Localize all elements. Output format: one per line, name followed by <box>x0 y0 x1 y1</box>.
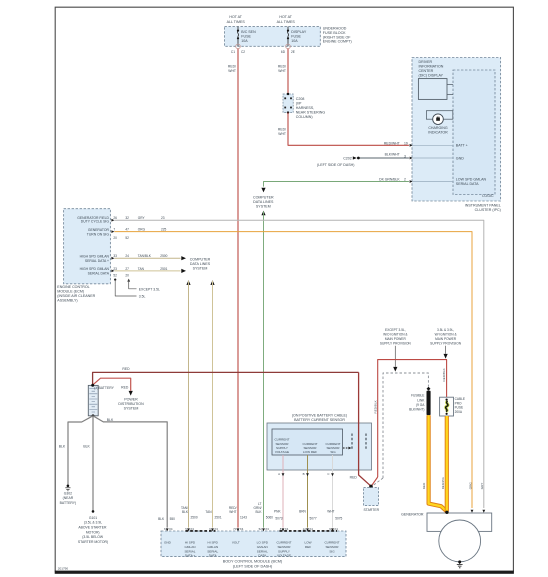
IPC pin GND <box>410 156 465 160</box>
svg-text:2501: 2501 <box>160 267 167 271</box>
svg-text:WHT: WHT <box>229 510 236 514</box>
svg-text:(9 GA: (9 GA <box>416 403 425 407</box>
svg-text:(NEAR: (NEAR <box>63 496 74 500</box>
svg-text:47: 47 <box>125 228 129 232</box>
svg-text:HARNESS,: HARNESS, <box>296 106 314 110</box>
svg-text:HIGH SPD GMLAN: HIGH SPD GMLAN <box>80 267 110 271</box>
svg-text:COLUMN): COLUMN) <box>296 115 313 119</box>
svg-text:SUPPLY PROVISION: SUPPLY PROVISION <box>430 341 462 345</box>
wire TAN/BLK 2500 <box>114 254 186 260</box>
svg-text:FUSIBLE: FUSIBLE <box>411 394 424 398</box>
BCM pin LO SPD GMLAN SERIAL DATA <box>254 502 274 558</box>
svg-text:(I/P: (I/P <box>296 101 302 105</box>
svg-text:2500: 2500 <box>191 515 198 519</box>
svg-text:RED: RED <box>121 386 129 390</box>
svg-text:PNK: PNK <box>274 509 281 513</box>
svg-text:5077: 5077 <box>310 516 317 520</box>
svg-text:NEAR STEERING: NEAR STEERING <box>296 110 326 114</box>
svg-text:X3: X3 <box>214 527 218 531</box>
svg-text:STARTER: STARTER <box>364 508 380 512</box>
svg-text:ALL TIMES: ALL TIMES <box>277 20 296 24</box>
svg-text:52: 52 <box>125 236 129 240</box>
svg-text:RED: RED <box>122 367 130 371</box>
wire TAN 2501 <box>114 267 186 273</box>
engine control module (ECM) box <box>57 209 110 303</box>
node computer data lines system (ECM side) <box>190 258 211 271</box>
svg-text:12: 12 <box>303 527 307 531</box>
svg-text:CHARGING: CHARGING <box>428 126 448 130</box>
svg-text:2500: 2500 <box>160 254 167 258</box>
svg-text:2: 2 <box>404 178 406 182</box>
svg-text:(INSIDE AIR CLEANER: (INSIDE AIR CLEANER <box>57 294 95 298</box>
svg-text:RED/: RED/ <box>278 64 286 68</box>
svg-text:COMPUTER: COMPUTER <box>253 196 274 200</box>
svg-text:GENERATOR: GENERATOR <box>88 228 110 232</box>
svg-text:W/ IGNITION &: W/ IGNITION & <box>435 332 458 336</box>
fuse B/C SEN 10A <box>231 27 256 54</box>
BCM pin LOW REF <box>303 527 314 549</box>
svg-text:ENGINE CONTROL: ENGINE CONTROL <box>57 285 89 289</box>
BCM pin GND <box>164 527 173 545</box>
svg-text:UNDERHOOD: UNDERHOOD <box>323 27 347 31</box>
svg-text:REF: REF <box>305 545 311 549</box>
svg-text:BATTERY): BATTERY) <box>60 501 76 505</box>
svg-text:(3.5L BELOW: (3.5L BELOW <box>82 535 104 539</box>
svg-text:ASSEMBLY): ASSEMBLY) <box>57 299 77 303</box>
svg-text:WHT: WHT <box>228 69 236 73</box>
generator case ground <box>457 560 463 567</box>
svg-text:2E: 2E <box>291 50 295 54</box>
wire ORG 225 to generator F <box>114 228 472 508</box>
cable RED generator to cable pro fuse (yellow) <box>441 416 447 512</box>
body control module (BCM) box <box>161 531 346 569</box>
svg-text:RED: RED <box>422 482 426 489</box>
svg-text:MODULE (ECM): MODULE (ECM) <box>57 290 84 294</box>
svg-text:52: 52 <box>113 273 117 277</box>
svg-text:X4: X4 <box>285 527 289 531</box>
battery current sensor box <box>267 413 372 470</box>
svg-text:DATA +: DATA + <box>185 554 195 558</box>
svg-text:19: 19 <box>404 141 408 145</box>
svg-text:LOW REF: LOW REF <box>303 450 317 454</box>
wire RED/WHT C208 to IPC BATT+ <box>278 113 409 146</box>
ground G302 <box>60 485 76 505</box>
svg-text:200A: 200A <box>455 410 463 414</box>
svg-text:BLK: BLK <box>107 418 114 422</box>
fusible link 9 GA BLK/WHT <box>409 387 430 415</box>
svg-text:GRY: GRY <box>480 483 484 490</box>
cable pro fuse 200A <box>440 397 465 416</box>
svg-text:23: 23 <box>113 267 117 271</box>
svg-text:(DIC) DISPLAY: (DIC) DISPLAY <box>419 74 444 78</box>
svg-text:33: 33 <box>113 254 117 258</box>
svg-text:ABOVE STARTER: ABOVE STARTER <box>78 526 107 530</box>
svg-text:HOT AT: HOT AT <box>279 15 292 19</box>
wire LT GRN/BLK 5060 to BCM <box>261 211 265 528</box>
svg-text:VOLT: VOLT <box>232 541 240 545</box>
svg-text:X3: X3 <box>265 527 269 531</box>
svg-text:(ON POSITIVE BATTERY CABLE): (ON POSITIVE BATTERY CABLE) <box>292 413 347 417</box>
svg-text:70: 70 <box>233 527 237 531</box>
svg-text:20: 20 <box>113 236 117 240</box>
BCM pin CURRENT SENSOR SUPPLY VOLTAGE <box>276 527 291 557</box>
svg-text:5060: 5060 <box>266 515 273 519</box>
svg-text:CLUSTER (IPC): CLUSTER (IPC) <box>475 208 501 212</box>
svg-text:LOGIC: LOGIC <box>482 194 494 198</box>
svg-text:HIGH SPD GMLAN: HIGH SPD GMLAN <box>80 254 110 258</box>
svg-text:26: 26 <box>113 216 117 220</box>
svg-text:BLK: BLK <box>182 510 189 514</box>
svg-text:6D: 6D <box>281 50 286 54</box>
svg-text:LOW SPD GMLAN: LOW SPD GMLAN <box>456 177 487 181</box>
starter junction node <box>369 485 373 489</box>
battery <box>88 384 114 417</box>
svg-text:INDICATOR: INDICATOR <box>428 131 448 135</box>
connector C202 <box>317 156 360 167</box>
svg-text:RED/: RED/ <box>228 64 236 68</box>
svg-text:SERIAL DATA: SERIAL DATA <box>88 271 110 275</box>
twisted pair marker hi-spd gmlan <box>186 530 216 532</box>
svg-text:3: 3 <box>404 154 406 158</box>
wire PNK 5073 <box>274 455 284 528</box>
svg-text:BATT +: BATT + <box>456 144 468 148</box>
svg-text:EXCEPT 3.5L: EXCEPT 3.5L <box>139 287 160 291</box>
svg-text:STARTER MOTOR): STARTER MOTOR) <box>78 540 108 544</box>
svg-text:X4: X4 <box>309 527 313 531</box>
svg-text:POWER: POWER <box>124 398 138 402</box>
svg-text:TAN/BLK: TAN/BLK <box>138 254 152 258</box>
svg-text:CENTER: CENTER <box>419 69 434 73</box>
svg-text:DATA LINES: DATA LINES <box>190 262 211 266</box>
underhood fuse block (box) <box>225 15 352 47</box>
label 3.5L & 3.9L W/ IGNITION & MAIN POWER SUPPLY PROVISION <box>430 328 462 359</box>
svg-text:RED/: RED/ <box>278 127 286 131</box>
connector C208 <box>283 93 325 119</box>
svg-text:MAIN POWER: MAIN POWER <box>385 337 407 341</box>
svg-text:DISTRIBUTION: DISTRIBUTION <box>118 402 144 406</box>
svg-text:WHT: WHT <box>278 132 286 136</box>
svg-text:ORG: ORG <box>468 482 472 490</box>
node computer data lines system (upper) <box>253 196 274 209</box>
svg-text:COMPUTER: COMPUTER <box>190 258 211 262</box>
svg-text:GENERATOR: GENERATOR <box>401 513 424 517</box>
svg-text:C1: C1 <box>231 50 235 54</box>
svg-text:RED: RED <box>350 476 358 480</box>
instrument panel cluster (IPC) box <box>412 58 501 213</box>
charging indicator <box>426 111 452 135</box>
svg-text:DUTY CYCLE SIG: DUTY CYCLE SIG <box>81 220 110 224</box>
svg-text:BLK: BLK <box>158 517 165 521</box>
BCM pin HI SPD GMLAN SERIAL DATA <box>205 510 221 558</box>
svg-text:B: B <box>303 472 305 476</box>
svg-text:5075: 5075 <box>335 516 342 520</box>
svg-text:ENGINE COMPT): ENGINE COMPT) <box>323 40 352 44</box>
svg-text:GRY: GRY <box>138 216 146 220</box>
svg-text:SYSTEM: SYSTEM <box>256 205 271 209</box>
svg-text:(+)BATTERY: (+)BATTERY <box>94 386 114 390</box>
svg-text:3.5L: 3.5L <box>139 295 146 299</box>
svg-text:SIG: SIG <box>329 549 335 553</box>
svg-text:X4: X4 <box>169 527 173 531</box>
svg-text:(LEFT SIDE OF DASH): (LEFT SIDE OF DASH) <box>233 565 273 569</box>
ground G101 <box>78 510 108 544</box>
svg-text:C: C <box>327 472 329 476</box>
svg-text:ALL TIMES: ALL TIMES <box>227 20 246 24</box>
svg-text:FUSE BLOCK: FUSE BLOCK <box>323 31 346 35</box>
wire RED/WHT fuse2 to C208 <box>278 49 288 93</box>
wire BLK/WHT IPC GND to C202 <box>360 153 409 159</box>
svg-text:SERIAL DATA +: SERIAL DATA + <box>85 259 109 263</box>
svg-text:W/O IGNITION &: W/O IGNITION & <box>383 332 408 336</box>
wire TAN/BLK 2500 BCM riser <box>186 280 190 527</box>
ECM pin HIGH SPD GMLAN SERIAL DATA + 33/24 <box>80 254 130 263</box>
svg-text:DRIVER: DRIVER <box>419 60 433 64</box>
wire RED battery positive cable <box>93 367 359 385</box>
svg-text:SERIAL DATA: SERIAL DATA <box>456 182 479 186</box>
svg-text:BRN: BRN <box>299 509 306 513</box>
cable RED generator to fusible link (yellow) <box>422 415 447 511</box>
svg-text:RED/BLK: RED/BLK <box>374 399 378 413</box>
svg-text:GND: GND <box>456 156 464 160</box>
svg-text:RED/BLK: RED/BLK <box>442 367 446 381</box>
svg-text:INFORMATION: INFORMATION <box>419 65 444 69</box>
generator <box>401 510 492 562</box>
svg-text:VOLTAGE: VOLTAGE <box>275 450 289 454</box>
svg-text:BODY CONTROL MODULE (BCM): BODY CONTROL MODULE (BCM) <box>223 560 283 564</box>
svg-text:20: 20 <box>125 273 129 277</box>
svg-text:DISPLAY: DISPLAY <box>291 30 307 34</box>
svg-text:GND: GND <box>164 541 172 545</box>
svg-text:10A: 10A <box>291 39 298 43</box>
label EXCEPT 3.5L W/O IGNITION & MAIN POWER SUPPLY PROVISION <box>380 328 412 372</box>
svg-text:SYSTEM: SYSTEM <box>193 267 208 271</box>
svg-text:2501: 2501 <box>215 515 222 519</box>
svg-text:EXCEPT 3.5L,: EXCEPT 3.5L, <box>385 328 406 332</box>
svg-text:32: 32 <box>125 216 129 220</box>
svg-text:WHT: WHT <box>327 509 334 513</box>
svg-text:(RIGHT SIDE OF: (RIGHT SIDE OF <box>323 35 351 39</box>
wire RED battery cable through sensor to starter junction <box>350 372 371 486</box>
IPC pin BATT+ <box>410 144 468 148</box>
svg-text:(3.5L & 3.9L: (3.5L & 3.9L <box>84 521 102 525</box>
svg-text:10A: 10A <box>241 39 248 43</box>
ECM pin variant note: 3.5L / EXCEPT 3.5L <box>114 279 160 299</box>
svg-text:201790: 201790 <box>58 566 69 570</box>
svg-text:MAIN POWER: MAIN POWER <box>435 337 457 341</box>
wire BLK battery to G302 <box>59 416 93 485</box>
BCM pin CURRENT SENSOR SIG <box>324 527 339 553</box>
svg-text:B/C SEN: B/C SEN <box>241 30 256 34</box>
svg-text:BLK/WHT: BLK/WHT <box>385 153 400 157</box>
svg-text:BATTERY CURRENT SENSOR: BATTERY CURRENT SENSOR <box>294 418 345 422</box>
wire BLK battery to BCM GND <box>93 416 175 528</box>
svg-text:X4: X4 <box>334 527 338 531</box>
wire RED/WHT fuse1 to BCM VOLT <box>228 49 238 528</box>
svg-text:SIG: SIG <box>330 450 336 454</box>
wire RED to power distribution system <box>93 378 144 410</box>
svg-text:23: 23 <box>161 216 165 220</box>
svg-text:FUSE: FUSE <box>241 35 251 39</box>
svg-text:RED/25A: RED/25A <box>441 477 445 489</box>
svg-text:3.5L & 3.9L,: 3.5L & 3.9L, <box>437 328 454 332</box>
ECM pin GENERATOR TURN ON SIG 7/47 <box>87 228 129 240</box>
svg-text:X4: X4 <box>240 527 244 531</box>
svg-text:BLK/WHT): BLK/WHT) <box>409 408 424 412</box>
BCM pin VOLT <box>229 506 247 545</box>
svg-text:(LEFT SIDE OF DASH): (LEFT SIDE OF DASH) <box>317 163 354 167</box>
svg-text:SUPPLY PROVISION: SUPPLY PROVISION <box>380 341 412 345</box>
svg-text:C202: C202 <box>343 156 352 160</box>
svg-text:X3: X3 <box>190 527 194 531</box>
svg-text:BLK: BLK <box>83 444 90 448</box>
svg-text:WHT: WHT <box>278 69 286 73</box>
svg-text:FUSE: FUSE <box>291 35 301 39</box>
svg-text:225: 225 <box>161 228 167 232</box>
ECM pin GENERATOR FIELD DUTY CYCLE SIG 26/32 <box>77 216 129 224</box>
svg-text:DATA LINES: DATA LINES <box>253 200 274 204</box>
svg-text:HOT AT: HOT AT <box>229 15 242 19</box>
starter box <box>364 488 380 512</box>
svg-text:24: 24 <box>125 254 129 258</box>
ECM pin HIGH SPD GMLAN SERIAL DATA 23/27 <box>80 267 130 278</box>
wire GRY 23 to generator L <box>114 216 484 508</box>
BCM pin HI SPD GMLAN SERIAL DATA + <box>181 506 198 558</box>
svg-text:TURN ON SIG: TURN ON SIG <box>87 233 110 237</box>
svg-text:DK GRN/BLK: DK GRN/BLK <box>379 178 400 182</box>
svg-text:BLK: BLK <box>255 510 262 514</box>
twisted pair marker current sensor wires <box>280 530 338 532</box>
fuse DISPLAY 10A <box>281 27 307 54</box>
svg-text:RED/WHT: RED/WHT <box>384 141 400 145</box>
svg-text:C2: C2 <box>241 50 245 54</box>
svg-text:550: 550 <box>170 517 176 521</box>
wire DK GRN/BLK IPC serial data <box>261 178 409 193</box>
svg-text:1143: 1143 <box>240 515 247 519</box>
svg-text:7: 7 <box>113 228 115 232</box>
svg-text:DATA: DATA <box>258 554 267 558</box>
svg-text:27: 27 <box>125 267 129 271</box>
svg-text:LINK: LINK <box>417 398 425 402</box>
svg-text:DATA: DATA <box>209 554 218 558</box>
svg-text:INSTRUMENT PANEL: INSTRUMENT PANEL <box>465 204 501 208</box>
svg-text:SYSTEM: SYSTEM <box>124 407 139 411</box>
wire dashed EXCEPT 3.5L path to fusible link <box>373 373 429 486</box>
svg-text:5073: 5073 <box>275 516 282 520</box>
svg-text:G101: G101 <box>89 516 97 520</box>
svg-text:TAN: TAN <box>138 267 145 271</box>
svg-text:52: 52 <box>259 527 263 531</box>
wire BRN 5077 <box>299 455 317 528</box>
IPC pin LOW SPD GMLAN SERIAL DATA <box>410 177 487 186</box>
driver information center (DIC) display <box>418 60 453 99</box>
svg-text:C208: C208 <box>296 97 305 101</box>
wire RED/BLK 3.5L-3.9L path to cable pro fuse <box>371 360 446 487</box>
svg-text:TAN: TAN <box>205 510 212 514</box>
svg-text:BLK: BLK <box>59 444 66 448</box>
svg-text:G302: G302 <box>64 492 72 496</box>
svg-text:MOTOR): MOTOR) <box>86 530 100 534</box>
svg-text:VOLTAGE: VOLTAGE <box>277 554 291 558</box>
wire WHT 5075 <box>327 455 342 528</box>
svg-text:ORG: ORG <box>138 228 146 232</box>
svg-text:A: A <box>278 472 280 476</box>
wire BLK battery to G101 <box>83 416 93 511</box>
wire TAN 2501 BCM riser <box>210 280 214 527</box>
